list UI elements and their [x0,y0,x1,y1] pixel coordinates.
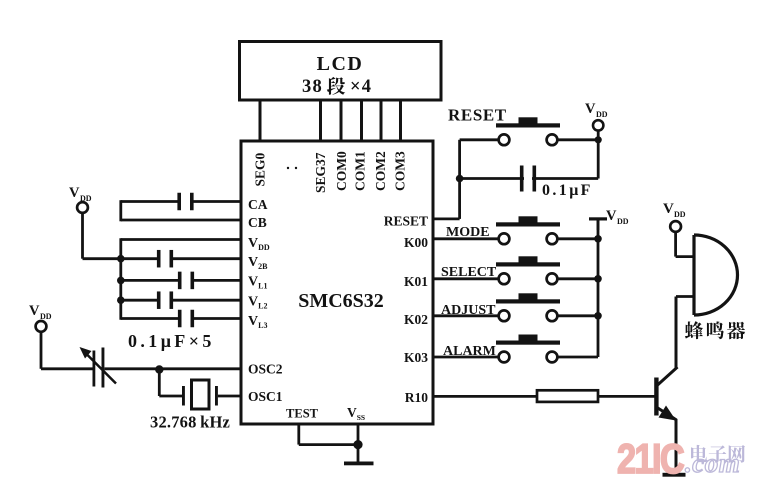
junction bus K00 [594,235,602,243]
junction on bus at VL1 row [117,277,125,285]
svg-text:CA: CA [248,197,268,212]
wire VDD stub [597,131,600,140]
pin label TEST [286,407,319,421]
push switch S1 RESET [496,117,560,145]
svg-text:.com: .com [685,448,740,478]
wire LCD to COM2 [380,100,383,141]
wire S1 left to node [460,140,499,179]
pin label SEG37 [313,152,328,193]
svg-text:V: V [606,208,617,224]
wire V2B row [121,257,241,260]
svg-text:DD: DD [617,217,629,226]
wire switch SELECT to bus [557,277,598,280]
wire LCD to SEG0 [259,100,262,141]
junction bus K02 [594,312,602,320]
wire VDD to trimmer [41,332,93,369]
svg-text:TEST: TEST [286,407,319,421]
pin label K00 [404,235,428,250]
IC U1 name SMC6S32 [298,290,384,312]
label MODE [446,225,490,240]
transistor Q1 base bar [654,378,658,416]
svg-text:0.1μF×5: 0.1μF×5 [128,331,215,351]
value label 0.1uF x5 [128,331,215,351]
svg-text:DD: DD [596,110,608,119]
svg-text:SEG37: SEG37 [313,152,328,193]
wire LCD to COM3 [399,100,402,141]
svg-text:K00: K00 [404,235,428,250]
wire VDD terminal to bias bus [83,213,121,259]
pin label V2B [248,255,268,271]
junction at VDD node [595,136,602,143]
power terminal VDD (buzzer) [663,201,686,232]
svg-text:DD: DD [674,210,686,219]
label SELECT [441,265,497,280]
wire K00 to switch [433,237,499,240]
wire VDD row [121,238,241,241]
power terminal VDD (top left) [69,185,92,213]
pin label K01 [404,274,428,289]
svg-text:COM1: COM1 [353,151,368,191]
svg-text:V: V [585,101,596,117]
crystal X1 32.768kHz [182,380,218,409]
wire R10 to resistor [433,395,538,398]
value label 0.1uF [542,182,593,199]
svg-text:V: V [29,303,40,319]
power label VDD (keys) [606,208,629,226]
svg-text:K03: K03 [404,350,428,365]
ellipsis between SEG pins [287,167,297,169]
wire S1 right to VDD node [557,138,598,141]
svg-text:DD: DD [40,312,52,321]
bias bus vertical [119,238,122,320]
svg-text:K01: K01 [404,274,428,289]
wire trimmer to OSC2 [105,367,242,370]
wire VSS pin [357,424,360,463]
wire switch MODE to bus [557,237,598,240]
resistor R (base) [537,390,598,402]
capacitor C2 (V2B) [157,250,173,268]
capacitor C1 (CA-CB) [177,193,193,211]
svg-text:R10: R10 [405,390,428,405]
pin label VDD [248,236,270,252]
pin label OSC2 [248,362,283,377]
junction on bus at VL2 row [117,296,125,304]
wire CA row [121,200,241,203]
transistor Q1 collector [657,297,678,386]
svg-text:×4: ×4 [350,77,372,97]
pin label R10 [405,390,428,405]
pin label CB [248,215,267,230]
junction TEST-VSS [353,440,362,449]
push switch SELECT [496,256,560,284]
value label 32.768 kHz [150,413,230,432]
pin label SEG0 [253,152,268,186]
svg-text:V: V [69,185,80,201]
wire VL2 row [121,299,241,302]
svg-text:CB: CB [248,215,267,230]
wire down to crystal [159,370,182,397]
power rail VDD (keys) [589,217,607,230]
wire VDD to buzzer [676,232,694,257]
pin label COM0 [334,151,349,191]
push switch MODE [496,216,560,244]
svg-text:RESET: RESET [384,214,428,229]
wire cap row left [460,177,524,180]
LCD display module, 38 segments x 4 commons [240,42,442,101]
capacitor C6 0.1uF [520,166,536,192]
key bus vertical [597,219,600,357]
capacitor C4 (VL2) [157,291,173,309]
watermark logo 21IC.com dianziwang [617,436,745,483]
wire to RESET pin [433,179,460,219]
svg-text:MODE: MODE [446,225,490,240]
pin label VL3 [248,314,267,330]
wire K01 to switch [433,277,499,280]
pin label CA [248,197,268,212]
svg-text:COM3: COM3 [393,151,408,191]
power terminal VDD (lower left) [29,303,52,332]
capacitor C5 (VL3) [178,310,194,328]
pin label VL2 [248,295,267,311]
svg-text:V: V [663,201,674,217]
label ADJUST [441,303,496,318]
pin label K02 [404,312,428,327]
junction reset node [456,175,464,183]
wire K02 to switch [433,314,499,317]
wire LCD to SEG37 [319,100,322,141]
svg-text:COM2: COM2 [373,151,388,191]
pin label COM1 [353,151,368,191]
svg-text:SEG0: SEG0 [253,152,268,186]
pin label COM3 [393,151,408,191]
pin label VSS [347,405,365,422]
buzzer body [694,235,738,315]
label RESET switch [448,106,507,125]
wire switch ALARM to bus [557,356,598,359]
wire VL3 row [121,317,241,320]
svg-text:SMC6S32: SMC6S32 [298,290,384,312]
junction bus K01 [594,275,602,283]
svg-text:32.768 kHz: 32.768 kHz [150,413,230,432]
wire resistor to base [598,395,655,398]
label buzzer (feng ming qi) [685,321,745,339]
svg-text:COM0: COM0 [334,151,349,191]
label ALARM [443,344,496,359]
wire TEST pin [299,424,358,445]
wire emitter to ground [675,419,678,475]
wire cap row right [532,140,598,179]
svg-text:LCD: LCD [317,53,364,75]
wire K03 to switch [433,356,499,359]
power terminal VDD (reset) [585,101,608,131]
wire CB row [121,219,241,222]
wire CA-CB left leg [119,200,122,221]
svg-text:K02: K02 [404,312,428,327]
pin label OSC1 [248,389,283,404]
svg-text:SELECT: SELECT [441,265,497,280]
svg-text:OSC2: OSC2 [248,362,283,377]
svg-text:ADJUST: ADJUST [441,303,496,318]
transistor Q1 emitter with arrow [657,406,677,421]
capacitor C3 (VL1) [178,272,194,290]
IC U1 SMC6S32 body [241,141,433,424]
push switch ADJUST [496,293,560,321]
svg-text:OSC1: OSC1 [248,389,283,404]
svg-text:21IC: 21IC [617,436,684,483]
wire VL1 row [121,279,241,282]
svg-text:38: 38 [302,77,323,97]
buzzer lower pin [676,297,694,299]
svg-text:0.1μF: 0.1μF [542,182,593,199]
wire LCD to COM1 [360,100,363,141]
pin label COM2 [373,151,388,191]
push switch ALARM [496,335,560,363]
trimmer capacitor CT [80,347,117,388]
wire LCD to COM0 [340,100,343,141]
junction OSC node [155,365,163,373]
wire switch ADJUST to bus [557,314,598,317]
pin label RESET [384,214,428,229]
ground symbol (emitter) [663,473,686,477]
svg-text:RESET: RESET [448,106,507,125]
pin label VL1 [248,275,267,291]
pin label K03 [404,350,428,365]
ground symbol (VSS) [344,462,374,466]
junction on bus at V2B row [117,255,125,263]
svg-text:ALARM: ALARM [443,344,496,359]
wire crystal to OSC1 [218,395,241,398]
